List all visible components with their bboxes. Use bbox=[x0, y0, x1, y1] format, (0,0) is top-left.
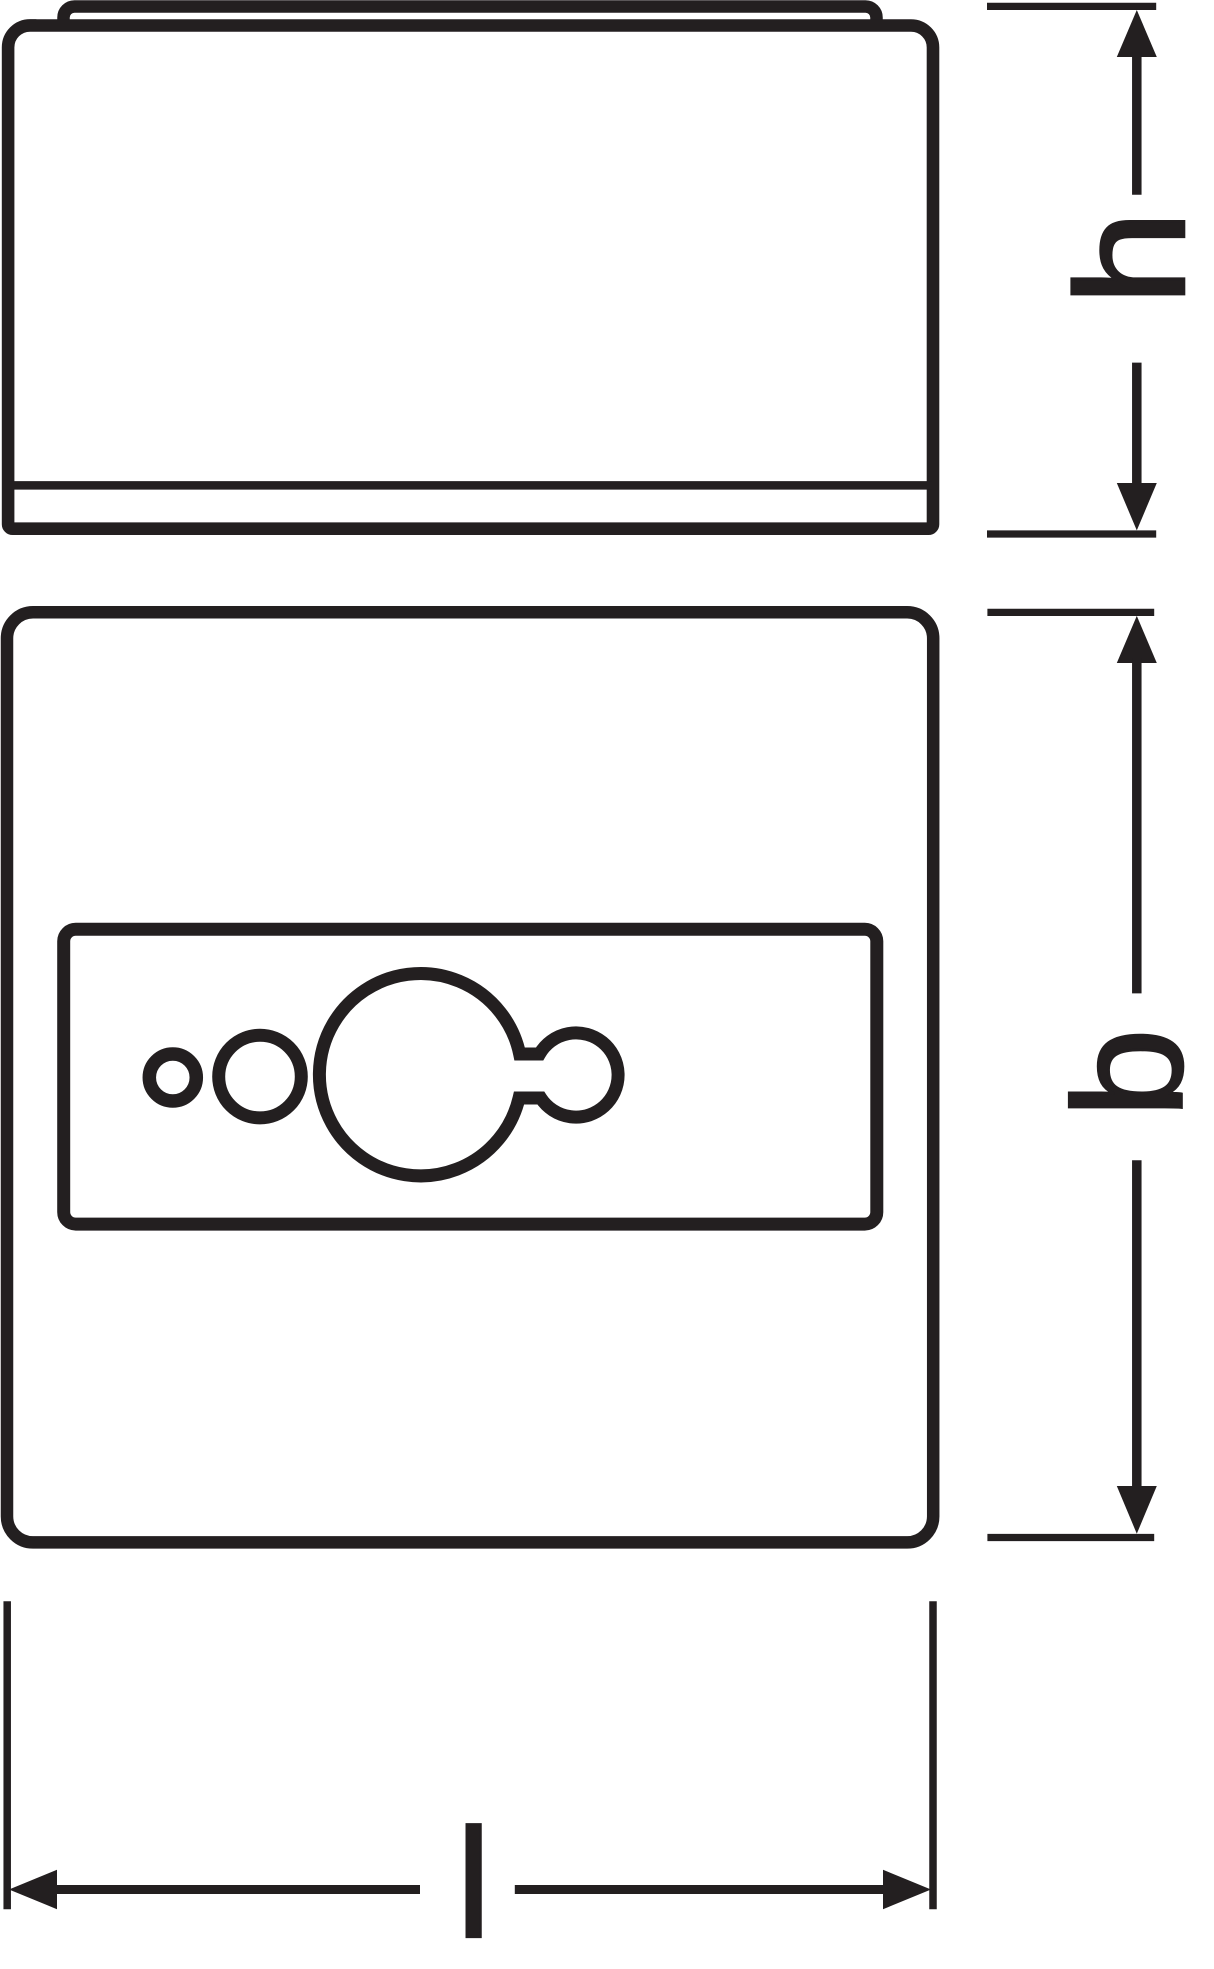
svg-text:h: h bbox=[1044, 210, 1214, 306]
svg-text:b: b bbox=[1041, 1028, 1214, 1118]
svg-text:l: l bbox=[456, 1797, 490, 1969]
